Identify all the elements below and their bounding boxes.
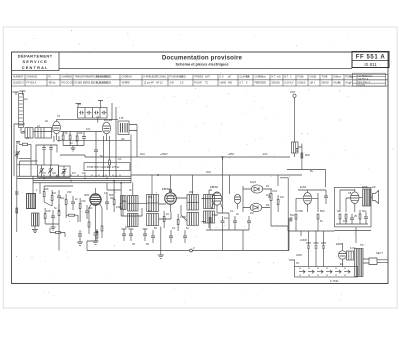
svg-text:AVC: AVC — [140, 152, 145, 156]
svg-text:VOL.: VOL. — [310, 76, 316, 79]
wire bus risers — [86, 241, 88, 251]
svg-text:50p: 50p — [60, 196, 65, 200]
svg-text:AC: AC — [24, 97, 28, 101]
svg-text:V2: V2 — [96, 115, 100, 119]
trimmer T4 — [15, 151, 20, 159]
resistor R9 — [113, 200, 115, 205]
capacitor C22 — [49, 145, 53, 152]
svg-text:F-7340: F-7340 — [330, 279, 339, 283]
PSU: fuse F3 — [321, 243, 326, 251]
wire B+ to output — [287, 170, 326, 188]
svg-text:1: 1 — [36, 188, 38, 192]
wire bus drop to det — [222, 157, 224, 191]
svg-text:EL84: EL84 — [300, 185, 307, 189]
svg-text:TR: TR — [360, 243, 364, 247]
capacitor C2b — [94, 132, 98, 177]
wires IF drive — [107, 190, 121, 196]
svg-text:150: 150 — [67, 190, 72, 194]
svg-text:2M2: 2M2 — [84, 193, 90, 197]
svg-text:3 W: 3 W — [170, 82, 175, 85]
wire B+ to mixer — [98, 103, 112, 123]
wire gnd run AF — [288, 226, 335, 231]
svg-text:8 kg: 8 kg — [346, 82, 351, 85]
svg-text:250V: 250V — [272, 82, 278, 85]
junction dot J2 — [96, 231, 98, 233]
svg-text:Schéma et pièces électriques: Schéma et pièces électriques — [176, 63, 229, 67]
svg-text:GAMMES: GAMMES — [62, 76, 73, 79]
capacitor C6 — [85, 205, 89, 219]
svg-text:C.V.: C.V. — [220, 76, 225, 79]
trimmer T2 — [48, 165, 53, 177]
svg-text:ECH81 EBF80 EBC41 EL84 EZ80: ECH81 EBF80 EBC41 EL84 EZ80 — [75, 82, 112, 85]
svg-text:490: 490 — [228, 82, 233, 85]
svg-text:6,3V: 6,3V — [350, 246, 356, 250]
svg-text:+250V: +250V — [160, 152, 168, 156]
svg-text:6,3V: 6,3V — [285, 82, 290, 85]
PSU: fuse F1 — [306, 243, 311, 251]
PSU wiring — [289, 218, 343, 267]
svg-text:AP 12: AP 12 — [156, 82, 163, 85]
converter drops — [107, 181, 133, 198]
speaker SP — [373, 191, 379, 204]
band switch wire band — [17, 176, 131, 183]
svg-text:PU: PU — [72, 171, 76, 175]
svg-text:175: 175 — [119, 116, 124, 120]
bottom-left: ground gnd5 — [77, 240, 83, 245]
svg-text:47K: 47K — [63, 131, 68, 135]
trimmer box TB1 — [38, 165, 59, 177]
trimmer box TB2 — [59, 166, 71, 177]
resistor R15 — [317, 214, 319, 219]
resistor R10 — [120, 204, 122, 209]
power transformer TR2 — [355, 249, 364, 277]
svg-text:10n: 10n — [224, 216, 229, 220]
svg-text:6K8: 6K8 — [305, 153, 310, 157]
wire cluster left — [44, 186, 73, 218]
parts table band — [12, 73, 389, 86]
svg-text:0,5: 0,5 — [302, 82, 306, 85]
switch bank SW — [295, 267, 358, 278]
resistor R14 — [295, 214, 297, 219]
diode D1 oval — [251, 185, 263, 193]
svg-text:6V: 6V — [296, 261, 299, 265]
svg-text:22K: 22K — [44, 187, 49, 191]
svg-text:5n: 5n — [320, 219, 323, 223]
svg-text:0: 0 — [193, 246, 195, 250]
IF can IF3b — [187, 212, 199, 225]
wire loop drops — [19, 152, 51, 166]
svg-text:+85V: +85V — [228, 152, 234, 156]
wire under tube row — [57, 139, 131, 141]
PSU terminal strip — [347, 251, 354, 260]
wire osc vertical — [30, 144, 32, 176]
bottom-left: resistor R19 — [56, 232, 61, 234]
svg-text:6AL5: 6AL5 — [250, 180, 257, 184]
svg-text:-12V: -12V — [262, 152, 268, 156]
svg-text:65: 65 — [277, 82, 280, 85]
tube V5 (detector EBF80) — [212, 192, 221, 205]
trimmer T1 — [39, 165, 44, 177]
svg-text:5n: 5n — [186, 226, 189, 230]
tube V6 small — [234, 194, 240, 204]
capacitor C4 — [71, 196, 75, 210]
IF coil col A upper — [128, 196, 139, 212]
svg-text:470: 470 — [81, 199, 86, 203]
IF transformer IF1 — [118, 121, 129, 135]
switch contact ticks — [300, 268, 345, 277]
IF B+ drops — [152, 175, 193, 195]
svg-text:0,1: 0,1 — [230, 209, 234, 213]
svg-text:1n: 1n — [70, 141, 73, 145]
resistor R1 — [62, 135, 64, 140]
IF can IF2a — [147, 195, 159, 212]
svg-text:220V: 220V — [296, 253, 302, 257]
svg-text:452: 452 — [189, 190, 194, 194]
svg-text:TC: TC — [205, 82, 208, 85]
wire rf row left — [14, 124, 25, 176]
capacitor C14 — [233, 216, 237, 228]
svg-text:8: 8 — [350, 82, 352, 85]
svg-text:0,5A: 0,5A — [298, 82, 303, 85]
svg-text:CADRE: CADRE — [255, 76, 264, 79]
junction dot J1 — [190, 249, 193, 252]
wire V2 screen — [115, 107, 117, 176]
capacitor C8 — [151, 230, 155, 243]
resistor R11 — [163, 217, 165, 222]
svg-text:5p: 5p — [100, 154, 103, 158]
left sub box — [20, 161, 38, 176]
svg-text:2n: 2n — [75, 197, 78, 201]
caps row mid C12 — [129, 229, 134, 241]
svg-text:EZ80: EZ80 — [336, 242, 343, 246]
tube V2 (mixer) — [102, 122, 110, 134]
wires IF section — [159, 198, 212, 251]
svg-text:5K6: 5K6 — [320, 209, 325, 213]
svg-text:ANT: ANT — [205, 76, 210, 79]
svg-text:50K: 50K — [322, 82, 327, 85]
ground gnd3 — [45, 224, 59, 230]
caps row mid C11 — [122, 229, 127, 241]
svg-text:20n: 20n — [88, 206, 93, 210]
resistor R6 — [65, 200, 67, 205]
svg-text:270K: 270K — [180, 215, 186, 219]
svg-text:CENTRAL: CENTRAL — [22, 65, 49, 70]
volume pot P1 — [270, 194, 272, 201]
svg-text:AVC: AVC — [206, 170, 211, 174]
svg-text:OC: OC — [62, 171, 66, 175]
svg-text:1M: 1M — [52, 191, 56, 195]
capacitor C15 — [247, 216, 251, 228]
capacitor C17 — [290, 218, 293, 222]
svg-text:39K: 39K — [110, 196, 115, 200]
wire det coil — [209, 190, 212, 228]
ground gnd2 — [32, 226, 38, 233]
IF can IF4a — [204, 195, 215, 209]
svg-text:FF 551 A: FF 551 A — [27, 82, 37, 85]
antenna input terminal — [293, 94, 296, 97]
IF can IF4b — [204, 211, 215, 223]
resistor R13b — [209, 218, 211, 223]
svg-text:PO: PO — [42, 171, 46, 175]
svg-text:10n: 10n — [125, 225, 130, 229]
svg-text:IF2: IF2 — [148, 209, 152, 213]
resistor R3 — [76, 136, 78, 141]
svg-text:AR: AR — [82, 171, 86, 175]
svg-text:V: V — [290, 76, 292, 79]
svg-text:3n: 3n — [129, 188, 132, 192]
resistor R4 — [43, 192, 45, 197]
wires AF — [296, 190, 326, 212]
resistor R12 — [177, 220, 179, 225]
cluster resistor R23 horizontal — [69, 214, 75, 216]
B+ capacitor bank C-bank — [76, 101, 104, 108]
svg-text:EZ: EZ — [340, 262, 344, 266]
svg-text:V8: V8 — [348, 191, 352, 195]
capacitor C19 — [364, 212, 368, 224]
resistor R2b — [109, 160, 111, 165]
resistor R18 — [359, 214, 361, 219]
wires below V3 — [80, 208, 102, 230]
capacitor C10 — [183, 230, 187, 243]
wire grid bus — [33, 131, 102, 133]
svg-text:CLAVIER: CLAVIER — [240, 76, 250, 79]
ground wire gnd1 — [63, 146, 84, 152]
resistor R8 — [79, 204, 81, 209]
svg-text:110/220 V: 110/220 V — [13, 82, 24, 85]
bottom-left: resistor R20 — [96, 233, 98, 238]
svg-text:EBF80: EBF80 — [162, 187, 170, 191]
svg-text:PUISSANCE: PUISSANCE — [170, 76, 184, 79]
junction dot J3 — [157, 174, 159, 176]
svg-text:PU HP: PU HP — [195, 82, 203, 85]
svg-text:50: 50 — [154, 226, 157, 230]
wire box top left — [17, 164, 38, 166]
wire V1 anode to IF1 — [57, 120, 119, 122]
svg-text:3,5: 3,5 — [180, 82, 184, 85]
svg-text:50n: 50n — [290, 213, 295, 217]
resistor R2 — [69, 135, 71, 140]
wire det gnd ties — [206, 220, 249, 251]
capacitor C14b — [221, 216, 225, 230]
header: department box — [12, 52, 60, 71]
resistor R7 — [44, 214, 46, 219]
svg-text:1K: 1K — [166, 212, 169, 216]
svg-text:ALIMENT.: ALIMENT. — [13, 76, 24, 79]
svg-text:470K: 470K — [212, 213, 218, 217]
antenna coil ground — [296, 149, 299, 152]
cluster resistor R22 — [58, 211, 60, 216]
svg-text:POIDS: POIDS — [346, 76, 354, 79]
svg-text:220: 220 — [78, 131, 83, 135]
svg-text:2x600: 2x600 — [300, 238, 308, 242]
wire det to AF — [278, 175, 288, 251]
svg-text:PRISES: PRISES — [195, 76, 204, 79]
capacitor C16 — [324, 190, 328, 204]
ground gnd6 — [93, 239, 99, 244]
svg-text:TICONAL: TICONAL — [156, 76, 167, 79]
resistor R13 — [277, 200, 279, 205]
resistor R26 — [101, 226, 103, 231]
svg-text:TRANSFORMATEURS LAMPES: TRANSFORMATEURS LAMPES — [75, 76, 110, 79]
frame border — [12, 52, 389, 284]
box bottom wire — [336, 224, 368, 243]
svg-text:6: 6 — [246, 82, 248, 85]
svg-text:50n: 50n — [362, 209, 367, 213]
bottom-left: capacitor C20 — [78, 230, 82, 240]
svg-text:40: 40 — [45, 119, 48, 123]
svg-text:VERRE: VERRE — [122, 82, 131, 85]
svg-text:12 cm AP: 12 cm AP — [144, 82, 155, 85]
svg-text:6 T.: 6 T. — [240, 82, 244, 85]
svg-text:BOB: BOB — [362, 185, 368, 189]
svg-text:100K: 100K — [116, 205, 122, 209]
svg-text:IS 811: IS 811 — [359, 84, 366, 87]
svg-text:25p: 25p — [122, 199, 127, 203]
tube V3 (osc/mixer dark) — [90, 194, 101, 205]
svg-text:TON.: TON. — [322, 76, 328, 79]
legend box note — [84, 163, 130, 171]
resistor R5 — [51, 196, 53, 201]
band contact ticks — [38, 175, 120, 177]
svg-text:10K: 10K — [46, 209, 51, 213]
IF coil col A lower — [128, 214, 139, 227]
svg-text:FERRO: FERRO — [255, 82, 264, 85]
svg-text:PO.GO.OC: PO.GO.OC — [62, 82, 74, 85]
svg-text:V1: V1 — [57, 114, 61, 118]
svg-text:0,1: 0,1 — [172, 226, 176, 230]
svg-text:1M: 1M — [266, 193, 270, 197]
svg-text:ECH81: ECH81 — [104, 118, 113, 122]
capacitor C18 — [350, 214, 354, 224]
svg-text:FF 551 A: FF 551 A — [356, 55, 386, 61]
tube V8 (EL84) — [351, 192, 359, 204]
svg-text:2n: 2n — [236, 212, 239, 216]
svg-text:1: 1 — [314, 82, 316, 85]
svg-text:452: 452 — [148, 195, 153, 199]
coil L4 — [292, 142, 299, 153]
svg-text:6,3: 6,3 — [290, 82, 294, 85]
capacitor C5 — [51, 210, 55, 224]
header: FF 551 A box — [352, 52, 389, 68]
det wiring — [131, 175, 302, 212]
svg-text:SECT: SECT — [376, 251, 383, 255]
svg-text:2x490: 2x490 — [220, 82, 227, 85]
svg-text:GO: GO — [52, 171, 56, 175]
scan speckle — [8, 30, 394, 303]
svg-text:DIM.: DIM. — [334, 76, 339, 79]
main bus AVC — [131, 156, 290, 158]
capacitor C3 — [57, 190, 61, 204]
capacitor C7 — [105, 196, 109, 210]
svg-text:50: 50 — [146, 242, 149, 246]
tube V4 (IF amp, metal) — [165, 193, 177, 205]
wire left column — [16, 144, 18, 232]
misc long verticals right — [222, 157, 224, 160]
svg-text:DÉPARTEMENT: DÉPARTEMENT — [18, 54, 53, 59]
svg-text:452 kc: 452 kc — [49, 82, 57, 85]
antenna shunt R21 — [298, 144, 302, 170]
resistor R16 — [339, 214, 341, 219]
caps row mid C13 — [143, 229, 148, 241]
svg-text:B.T.: B.T. — [285, 76, 289, 79]
wire IF1 down — [130, 135, 132, 184]
IF coil col A0 — [121, 196, 127, 210]
svg-text:POSITION CLAVIER 175 kc: POSITION CLAVIER 175 kc — [87, 165, 120, 169]
junction dot J4 — [222, 156, 224, 158]
tiny value labels — [24, 90, 383, 283]
PSU feed wires — [301, 231, 324, 243]
svg-text:1M: 1M — [250, 211, 254, 215]
svg-text:ANT: ANT — [290, 90, 296, 94]
svg-text:100: 100 — [343, 219, 348, 223]
svg-text:H.T.: H.T. — [272, 76, 277, 79]
PSU: fuse F2 — [314, 243, 319, 251]
antenna A1 — [13, 91, 26, 95]
svg-text:25: 25 — [132, 242, 135, 246]
svg-text:41x26: 41x26 — [334, 82, 341, 85]
svg-text:50: 50 — [326, 82, 329, 85]
svg-text:D2: D2 — [266, 203, 270, 207]
svg-text:B+: B+ — [310, 169, 314, 173]
svg-text:F.I.: F.I. — [49, 76, 53, 79]
ground gnd4 — [158, 251, 164, 259]
svg-text:1M: 1M — [310, 82, 313, 85]
capacitor C21 — [42, 145, 46, 152]
svg-text:+B: +B — [78, 102, 82, 106]
IF can IF3a — [187, 195, 199, 211]
output stage box — [335, 187, 372, 227]
svg-text:CADRAN: CADRAN — [122, 76, 132, 79]
rectifier tube V9 — [338, 251, 346, 259]
trimmer T3 — [62, 166, 67, 177]
svg-text:1M: 1M — [280, 195, 284, 199]
svg-text:pF: pF — [228, 76, 231, 79]
svg-text:mA: mA — [277, 76, 281, 79]
capacitor C23 — [16, 142, 20, 144]
svg-text:HP: HP — [372, 185, 376, 189]
svg-text:D1: D1 — [266, 184, 270, 188]
resistor R17 — [345, 214, 347, 219]
header: title — [59, 54, 352, 68]
output transformer TR1 — [363, 189, 371, 206]
svg-text:IS 811: IS 811 — [364, 62, 377, 67]
ferrite rod coil L1 — [19, 94, 24, 128]
left column part X1 — [15, 192, 19, 205]
svg-text:1K: 1K — [337, 209, 340, 213]
osc coil T-osc — [27, 194, 36, 209]
mains plug PL — [363, 258, 388, 265]
svg-text:5n: 5n — [54, 206, 57, 210]
rod series resistor R24 — [23, 143, 28, 145]
osc feedback loop — [36, 145, 57, 165]
coil box L3 — [25, 128, 33, 139]
svg-text:0,1: 0,1 — [118, 157, 122, 161]
svg-text:FUS.: FUS. — [298, 76, 304, 79]
svg-text:10n: 10n — [86, 127, 91, 131]
wire conv tie — [121, 203, 146, 216]
wire V2 pins down — [104, 143, 110, 176]
IF can IF2b — [147, 214, 159, 226]
coil box L2 — [35, 128, 52, 139]
coil L5 — [32, 213, 40, 226]
svg-text:470K: 470K — [297, 209, 303, 213]
capacitor C24 — [94, 230, 98, 239]
svg-text:Documentation provisoire: Documentation provisoire — [162, 54, 243, 61]
diode D2 oval — [250, 203, 262, 211]
tube V7 (AF amp) — [303, 193, 311, 205]
wire rod to coil row — [21, 128, 25, 134]
tube V1 (ECH81 triode) — [53, 121, 61, 133]
